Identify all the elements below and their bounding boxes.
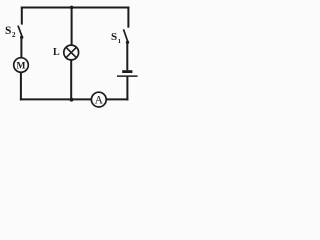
battery long plate bbox=[117, 75, 138, 77]
wire: left vertical lower (motor to bottom wire) bbox=[20, 72, 22, 100]
svg-text:L: L bbox=[53, 47, 60, 58]
switch S1 blade bbox=[124, 29, 128, 41]
wire: middle vertical lower (lamp to bottom wire) bbox=[70, 60, 72, 100]
wire: middle vertical upper (top wire to lamp) bbox=[71, 8, 73, 46]
ammeter A bbox=[91, 92, 106, 107]
svg-text:1: 1 bbox=[118, 38, 121, 45]
wire: left vertical upper (corner to switch S2) bbox=[21, 7, 23, 25]
motor M bbox=[14, 58, 29, 73]
wire: bottom horizontal right segment bbox=[106, 98, 128, 100]
switch S1 pivot dot bbox=[126, 41, 129, 44]
wire: left vertical (switch to motor) bbox=[20, 37, 22, 58]
svg-text:S: S bbox=[5, 25, 11, 37]
switch S2 pivot dot bbox=[20, 36, 23, 39]
battery short thick plate bbox=[122, 70, 132, 73]
wire: right vertical lower (battery to bottom wire) bbox=[126, 77, 128, 101]
svg-text:A: A bbox=[95, 95, 104, 107]
svg-text:2: 2 bbox=[12, 31, 16, 39]
wire: top horizontal bbox=[21, 7, 130, 9]
svg-text:M: M bbox=[17, 62, 26, 72]
wire: bottom horizontal left segment bbox=[20, 98, 92, 100]
svg-text:S: S bbox=[111, 31, 117, 43]
wire: right vertical upper (corner to switch S1) bbox=[127, 7, 129, 28]
switch S2 blade bbox=[18, 26, 22, 37]
lamp L bbox=[64, 45, 79, 60]
node: top junction dot bbox=[70, 6, 74, 10]
node: bottom junction dot bbox=[70, 98, 74, 102]
background bbox=[0, 0, 144, 118]
wire: right vertical (switch S1 to battery) bbox=[126, 42, 128, 70]
